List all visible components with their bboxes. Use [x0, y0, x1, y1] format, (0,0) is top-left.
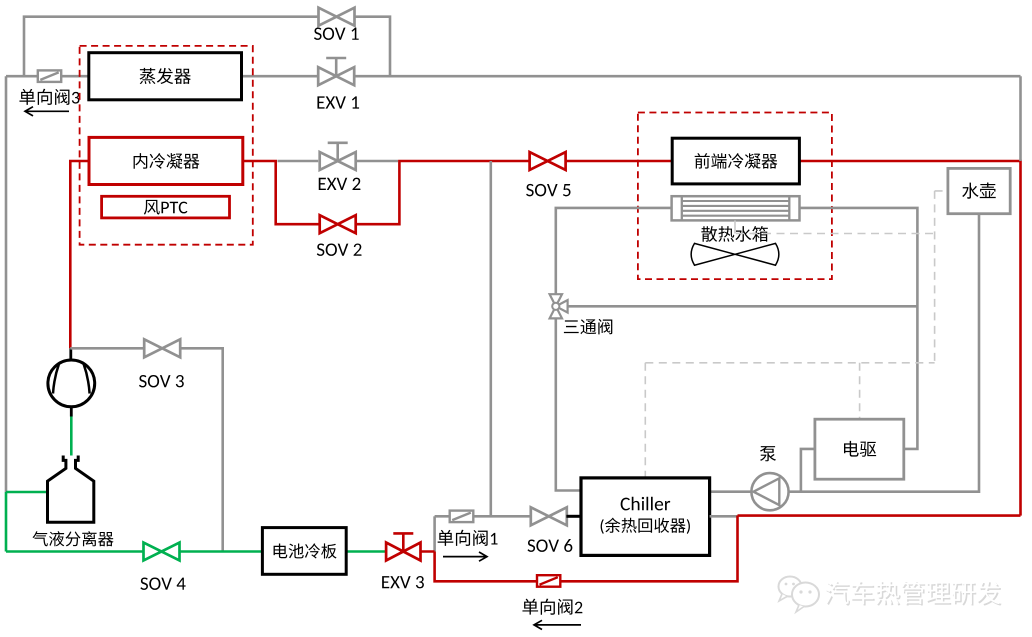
front-end dashed enclosure: [638, 113, 832, 280]
label 三通阀: [564, 320, 579, 333]
label 泵: [760, 446, 776, 461]
valve SOV 5: [530, 152, 566, 170]
valve SOV 6: [531, 507, 567, 525]
label SOV 3: [139, 375, 147, 387]
label 单向阀3: [19, 89, 35, 105]
coolant level dashed lines: [734, 220, 736, 233]
wire left outer drop: [5, 76, 8, 492]
check valve 单向阀3: [38, 70, 61, 82]
valve SOV 4: [144, 543, 180, 561]
component box 前端冷凝器: [672, 138, 799, 184]
arrow left (单向阀2 flow): [534, 620, 581, 629]
HVAC dashed enclosure: [80, 46, 253, 245]
check valve 单向阀2: [537, 575, 560, 587]
wire chiller right coolant stub: [710, 515, 738, 518]
wire 电驱 left leg: [801, 449, 815, 492]
valve EXV 3: [386, 543, 420, 561]
valve SOV 3: [144, 339, 180, 357]
wire red condenser right to SOV2 branch: [243, 161, 1021, 516]
valve SOV 1: [319, 8, 355, 26]
component box 风PTC: [102, 196, 230, 218]
wire gray riser above EXV3: [433, 516, 436, 551]
label EXV 1: [317, 96, 324, 108]
wire gray EXV2 bypass: [278, 160, 399, 163]
arrow left (单向阀3 flow): [25, 107, 69, 116]
label 气液分离器: [32, 531, 47, 546]
pump 泵: [751, 473, 788, 510]
component box Chiller: [581, 478, 710, 556]
wire red condenser left + compressor riser: [70, 161, 89, 348]
wire three-way branch: [568, 305, 918, 308]
wire red EXV3 outlet: [421, 516, 738, 582]
wire green compressor to separator: [70, 417, 73, 461]
fan symbol: [691, 243, 779, 265]
wire SOV3 branch: [70, 348, 222, 551]
label EXV 3: [382, 576, 389, 588]
wire coolant radiator line: [556, 208, 918, 491]
check valve 单向阀1: [450, 511, 474, 522]
valve EXV 2: [320, 152, 356, 170]
accumulator 气液分离器: [48, 456, 94, 523]
watermark text 汽车热管理研发: [826, 582, 1001, 606]
wire gray check1/SOV6 line: [435, 515, 532, 518]
label SOV 6: [528, 539, 536, 551]
watermark wechat logo: [779, 577, 820, 613]
label 单向阀1: [438, 530, 454, 546]
compressor: [69, 348, 72, 360]
wire gray top-right corner drop: [1019, 76, 1022, 161]
label EXV 2: [319, 178, 326, 190]
wire main refrigerant line y=76: [6, 75, 1021, 78]
component box 蒸发器: [89, 53, 242, 100]
valve SOV 2: [320, 215, 356, 233]
wire gray drop to chiller refrigerant line: [489, 161, 492, 516]
label SOV 2: [317, 243, 325, 255]
wire red bottom return: [738, 514, 1021, 517]
three-way valve 三通阀: [550, 294, 568, 318]
label SOV 4: [140, 577, 148, 589]
label SOV 1: [314, 27, 322, 39]
wire black SOV6-chiller stub: [566, 515, 581, 518]
arrow right (单向阀1 flow): [443, 552, 487, 561]
component box 电池冷板: [262, 528, 346, 575]
wire water bottle drop: [710, 214, 979, 492]
wire top loop (SOV 1 branch): [24, 17, 390, 76]
label 单向阀2: [522, 599, 538, 615]
label 散热水箱: [701, 226, 717, 242]
valve EXV 1: [318, 67, 354, 85]
label SOV 5: [526, 184, 534, 196]
wire green separator inlet: [6, 492, 48, 552]
radiator 散热水箱: [672, 196, 800, 220]
component box 电驱: [815, 419, 904, 479]
wire green battery loop: [6, 550, 386, 553]
component box 内冷凝器: [89, 137, 243, 184]
component box 水壶: [948, 168, 1010, 213]
